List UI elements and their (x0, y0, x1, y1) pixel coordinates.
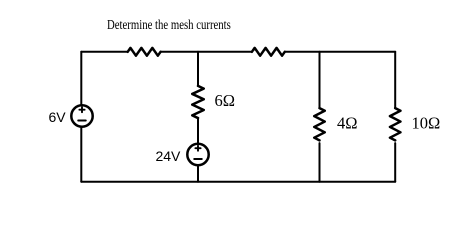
V2 plus sign (195, 146, 200, 151)
wire right vertical below 10 ohm (394, 143, 396, 182)
svg-text:6Ω: 6Ω (215, 91, 236, 110)
title: Determine the mesh currents (107, 18, 231, 31)
V1 plus sign (79, 107, 84, 112)
wire top segment middle (R1 to node to R2) (161, 51, 252, 53)
wire bottom (BL corner to BR corner) (81, 181, 395, 183)
wire right vertical above 10 ohm (394, 52, 396, 108)
resistor 4 ohm zigzag (314, 108, 325, 140)
voltage source V1 6V circle (71, 105, 92, 126)
resistor 10 ohm zigzag (390, 108, 401, 140)
svg-text:4Ω: 4Ω (337, 114, 358, 133)
V2 minus sign (194, 158, 202, 160)
wire 4 ohm branch bottom (319, 143, 321, 182)
V1 minus sign (78, 120, 86, 122)
wire top segment left (TL corner to R1) (81, 51, 127, 53)
wire 4 ohm branch top (319, 52, 321, 108)
svg-text:24V: 24V (155, 148, 181, 164)
voltage source V2 24V circle (187, 144, 208, 165)
svg-text:6V: 6V (48, 109, 66, 125)
resistor R top-right zigzag (252, 48, 285, 56)
svg-text:10Ω: 10Ω (412, 113, 441, 132)
wire left vertical below 6V source (80, 127, 82, 182)
wire middle branch below 24V source (197, 165, 199, 182)
wire left vertical above 6V source (80, 52, 82, 105)
wire middle branch top (top node to 6 ohm) (197, 52, 199, 86)
resistor R top-left zigzag (128, 48, 161, 56)
wire middle branch between 6 ohm and 24V source (197, 118, 199, 144)
wire top segment right (R2 to TR corner) (285, 51, 395, 53)
resistor 6 ohm zigzag (192, 86, 204, 118)
